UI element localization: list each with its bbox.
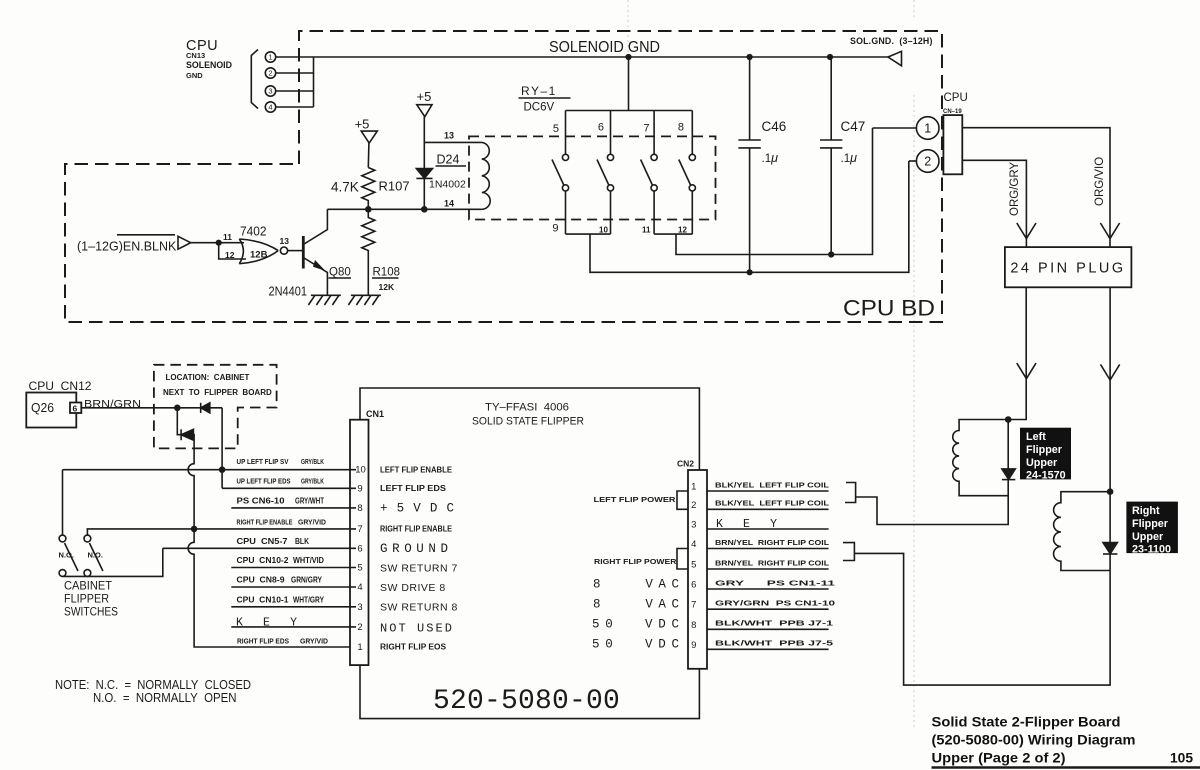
svg-text:BRN/GRN: BRN/GRN: [84, 399, 141, 411]
svg-text:2: 2: [357, 622, 362, 633]
svg-text:+5: +5: [355, 117, 370, 132]
svg-text:GRY/VID: GRY/VID: [298, 518, 326, 527]
svg-text:D24: D24: [437, 153, 460, 167]
svg-text:8 VAC: 8 VAC: [593, 577, 679, 591]
svg-text:7: 7: [691, 600, 696, 611]
svg-text:SOL.GND. (3–12H): SOL.GND. (3–12H): [850, 36, 933, 46]
svg-text:2: 2: [924, 155, 931, 169]
svg-text:N.O. = NORMALLY OPEN: N.O. = NORMALLY OPEN: [93, 691, 237, 705]
svg-text:R107: R107: [379, 179, 410, 194]
svg-text:9: 9: [691, 640, 696, 651]
svg-text:50 VDC: 50 VDC: [592, 618, 679, 632]
svg-text:Q26: Q26: [31, 401, 54, 415]
svg-text:6: 6: [691, 580, 696, 591]
svg-text:GRY PS CN1-11: GRY PS CN1-11: [715, 578, 835, 587]
svg-text:105: 105: [1170, 751, 1193, 766]
svg-text:3: 3: [691, 520, 696, 531]
svg-text:4: 4: [691, 539, 696, 550]
svg-text:50 VDC: 50 VDC: [592, 638, 679, 652]
svg-text:DC6V: DC6V: [524, 102, 555, 114]
svg-text:13: 13: [444, 131, 454, 141]
svg-text:520-5080-00: 520-5080-00: [433, 686, 620, 717]
svg-text:RIGHT FLIP EDS: RIGHT FLIP EDS: [237, 636, 289, 645]
svg-text:1: 1: [357, 642, 362, 653]
svg-text:CPU: CPU: [944, 92, 968, 104]
svg-text:12: 12: [225, 250, 235, 260]
svg-text:11: 11: [223, 232, 232, 242]
svg-text:N.O.: N.O.: [88, 551, 103, 560]
svg-text:7402: 7402: [240, 224, 267, 239]
svg-text:9: 9: [357, 483, 362, 494]
svg-text:6: 6: [598, 122, 604, 134]
svg-text:Upper: Upper: [1132, 531, 1164, 543]
svg-text:BLK/WHT PPB J7-5: BLK/WHT PPB J7-5: [715, 639, 833, 648]
svg-text:BRN/YEL RIGHT FLIP COIL: BRN/YEL RIGHT FLIP COIL: [715, 558, 830, 567]
svg-text:Solid State 2-Flipper Board: Solid State 2-Flipper Board: [932, 715, 1121, 730]
svg-text:CN2: CN2: [677, 459, 694, 469]
svg-text:GRY/BLK: GRY/BLK: [301, 457, 324, 466]
svg-text:SW DRIVE 8: SW DRIVE 8: [380, 582, 446, 594]
svg-text:GND: GND: [186, 71, 203, 80]
svg-text:4.7K: 4.7K: [331, 180, 359, 195]
svg-text:2: 2: [691, 500, 696, 511]
svg-text:24-1570: 24-1570: [1026, 469, 1066, 481]
svg-text:24 PIN PLUG: 24 PIN PLUG: [1010, 261, 1125, 277]
svg-text:4: 4: [268, 103, 272, 112]
svg-text:12: 12: [678, 226, 687, 235]
svg-text:NOTE: N.C. = NORMALLY CLOS: NOTE: N.C. = NORMALLY CLOSED: [55, 678, 251, 692]
svg-text:RIGHT FLIP ENABLE: RIGHT FLIP ENABLE: [237, 518, 293, 527]
svg-text:6: 6: [357, 543, 362, 554]
svg-text:TY–FFASI 4006: TY–FFASI 4006: [485, 402, 569, 414]
svg-text:1N4002: 1N4002: [429, 179, 466, 191]
svg-text:UP LEFT FLIP EDS: UP LEFT FLIP EDS: [237, 477, 291, 486]
svg-text:14: 14: [444, 199, 454, 209]
svg-text:13: 13: [280, 236, 290, 246]
svg-text:CN13: CN13: [186, 51, 205, 60]
svg-text:CPU CN12: CPU CN12: [29, 381, 92, 393]
svg-text:UP LEFT FLIP SV: UP LEFT FLIP SV: [237, 457, 290, 466]
svg-text:8: 8: [678, 122, 684, 134]
svg-text:WHT/VID: WHT/VID: [293, 556, 324, 565]
svg-text:BLK/YEL LEFT FLIP COIL: BLK/YEL LEFT FLIP COIL: [715, 499, 830, 508]
svg-text:LOCATION: CABINET: LOCATION: CABINET: [166, 373, 250, 382]
svg-text:Right: Right: [1132, 505, 1160, 517]
svg-text:SOLENOID: SOLENOID: [186, 60, 232, 71]
svg-text:10: 10: [355, 465, 366, 476]
svg-text:7: 7: [643, 123, 649, 135]
svg-text:9: 9: [552, 223, 558, 235]
svg-text:NEXT TO FLIPPER BOARD: NEXT TO FLIPPER BOARD: [163, 388, 272, 397]
svg-text:C47: C47: [841, 119, 866, 134]
svg-text:R108: R108: [373, 267, 401, 279]
svg-text:CPU CN5-7: CPU CN5-7: [237, 537, 288, 546]
svg-text:Flipper: Flipper: [1132, 518, 1169, 530]
svg-text:GRY/BLK: GRY/BLK: [301, 477, 324, 486]
svg-text:6: 6: [73, 404, 78, 414]
svg-text:(1–12G)EN.BLNK: (1–12G)EN.BLNK: [77, 240, 177, 254]
svg-text:BLK/YEL LEFT FLIP COIL: BLK/YEL LEFT FLIP COIL: [715, 480, 830, 489]
svg-text:1: 1: [268, 53, 272, 62]
svg-text:PS CN6-10: PS CN6-10: [237, 497, 286, 506]
svg-text:7: 7: [357, 524, 362, 535]
svg-text:5: 5: [357, 563, 362, 574]
svg-text:CPU CN10-1: CPU CN10-1: [237, 595, 289, 604]
svg-text:4: 4: [357, 582, 362, 593]
svg-text:CPU CN8-9: CPU CN8-9: [237, 576, 285, 585]
svg-text:LEFT FLIP ENABLE: LEFT FLIP ENABLE: [380, 465, 452, 474]
svg-text:+5: +5: [417, 89, 432, 104]
svg-text:8 VAC: 8 VAC: [593, 598, 679, 612]
svg-text:SW RETURN 8: SW RETURN 8: [380, 601, 458, 613]
svg-text:LEFT FLIP EDS: LEFT FLIP EDS: [380, 484, 446, 493]
svg-text:2: 2: [268, 69, 272, 78]
svg-text:3: 3: [357, 602, 362, 613]
svg-text:GROUND: GROUND: [380, 542, 448, 556]
svg-text:N.O.: N.O.: [59, 551, 74, 560]
svg-text:RIGHT FLIP ENABLE: RIGHT FLIP ENABLE: [380, 525, 452, 534]
svg-text:ORG/GRY: ORG/GRY: [1009, 162, 1021, 216]
svg-text:CABINET: CABINET: [64, 581, 112, 593]
svg-text:Q80: Q80: [329, 267, 351, 279]
svg-text:CN1: CN1: [366, 409, 384, 419]
svg-text:+5VDC: +5VDC: [380, 501, 454, 515]
svg-text:SWITCHES: SWITCHES: [64, 607, 118, 619]
svg-text:RIGHT FLIP EOS: RIGHT FLIP EOS: [380, 643, 446, 652]
svg-text:5: 5: [553, 123, 559, 135]
svg-text:BLK: BLK: [295, 537, 309, 546]
svg-text:FLIPPER: FLIPPER: [64, 594, 109, 606]
svg-text:1: 1: [924, 122, 931, 136]
svg-text:.1μ: .1μ: [841, 151, 858, 165]
svg-text:C46: C46: [762, 119, 787, 134]
svg-text:1: 1: [691, 482, 696, 493]
svg-text:Upper (Page 2 of 2): Upper (Page 2 of 2): [932, 751, 1066, 766]
svg-text:12K: 12K: [379, 282, 395, 292]
svg-text:Flipper: Flipper: [1026, 444, 1063, 456]
svg-text:23-1100: 23-1100: [1132, 543, 1171, 555]
svg-text:GRY/WHT: GRY/WHT: [295, 497, 324, 506]
svg-text:BLK/WHT PPB J7-1: BLK/WHT PPB J7-1: [715, 619, 833, 628]
svg-text:CPU CN10-2: CPU CN10-2: [237, 556, 289, 565]
svg-text:SW RETURN 7: SW RETURN 7: [380, 563, 458, 575]
svg-text:.1μ: .1μ: [762, 151, 779, 165]
svg-text:ORG/VIO: ORG/VIO: [1094, 157, 1106, 206]
svg-text:LEFT FLIP POWER: LEFT FLIP POWER: [594, 495, 677, 504]
svg-text:SOLENOID GND: SOLENOID GND: [549, 39, 660, 56]
svg-text:NOT USED: NOT USED: [380, 621, 452, 635]
svg-text:SOLID STATE FLIPPER: SOLID STATE FLIPPER: [472, 416, 584, 428]
svg-text:3: 3: [268, 87, 272, 96]
svg-text:(520-5080-00) Wiring Diagram: (520-5080-00) Wiring Diagram: [932, 733, 1136, 748]
svg-text:Left: Left: [1026, 431, 1046, 443]
svg-text:GRY/GRN PS CN1-10: GRY/GRN PS CN1-10: [715, 599, 835, 608]
svg-text:10: 10: [599, 226, 608, 235]
svg-text:11: 11: [642, 226, 651, 235]
svg-text:GRY/VID: GRY/VID: [300, 636, 328, 645]
svg-text:RIGHT FLIP POWER: RIGHT FLIP POWER: [594, 557, 677, 566]
svg-text:Upper: Upper: [1026, 457, 1058, 469]
svg-text:GRN/GRY: GRN/GRY: [291, 576, 322, 585]
svg-text:8: 8: [691, 620, 696, 631]
svg-text:8: 8: [357, 503, 362, 514]
svg-text:2N4401: 2N4401: [269, 284, 308, 299]
svg-text:WHT/GRY: WHT/GRY: [293, 595, 324, 604]
svg-text:RY–1: RY–1: [521, 84, 557, 98]
svg-text:BRN/YEL RIGHT FLIP COIL: BRN/YEL RIGHT FLIP COIL: [715, 538, 830, 547]
svg-text:CPU BD: CPU BD: [843, 296, 935, 321]
svg-text:CN–19: CN–19: [943, 109, 962, 115]
svg-text:5: 5: [691, 560, 696, 571]
